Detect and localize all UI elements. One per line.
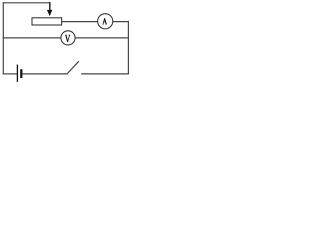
wire battery to switch pivot xyxy=(22,73,67,75)
wire top horizontal xyxy=(3,2,50,4)
battery long thin plate (+) xyxy=(16,65,18,82)
wire switch to bottom right corner xyxy=(82,73,129,75)
voltmeter circle xyxy=(61,31,75,45)
switch blade xyxy=(67,62,79,74)
slider arrowhead xyxy=(47,10,52,16)
wire rheostat to ammeter xyxy=(62,21,98,23)
voltmeter label V xyxy=(65,35,70,42)
ammeter circle xyxy=(98,14,113,29)
ammeter label A xyxy=(103,18,107,24)
wire voltmeter branch left xyxy=(3,37,61,39)
wire slider stem xyxy=(49,3,51,11)
wire ammeter to right vertical xyxy=(113,21,128,23)
resistor box (rheostat) xyxy=(32,18,62,25)
wire voltmeter branch right xyxy=(75,37,129,39)
wire right vertical xyxy=(127,21,129,74)
battery short thick plate (-) xyxy=(20,69,22,78)
wire left vertical xyxy=(2,3,4,74)
wire bottom left to battery xyxy=(3,73,16,75)
